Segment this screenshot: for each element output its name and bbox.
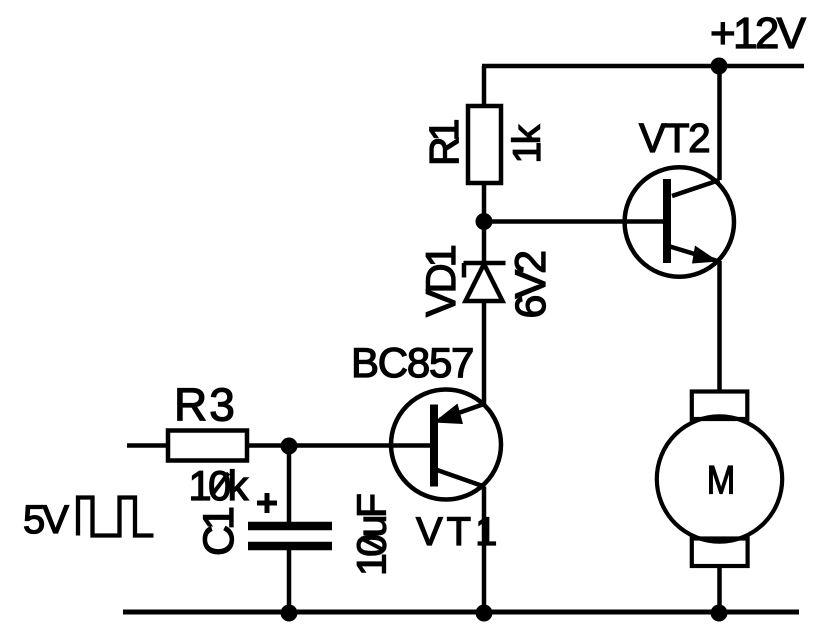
wire R3 to VT1 base (247, 443, 430, 448)
svg-text:R1: R1 (421, 120, 467, 166)
svg-text:+12V: +12V (710, 9, 807, 58)
wire VT2 emitter to motor (717, 261, 722, 392)
wire R1 top (482, 66, 487, 106)
emitter arrow VT1 (434, 404, 464, 425)
svg-text:6V2: 6V2 (507, 252, 555, 319)
emitter arrow VT2 (692, 246, 719, 264)
wire C1 top (287, 446, 292, 527)
node +12V junction dot (711, 58, 728, 75)
svg-text:M: M (707, 459, 736, 503)
wire ground rail (123, 610, 799, 615)
wire input stub (127, 443, 168, 448)
motor M brushes (692, 392, 748, 420)
svg-text:5V: 5V (23, 498, 69, 542)
wire VT1 emitter to ground (482, 487, 487, 613)
capacitor C1 (248, 493, 332, 546)
node B junction dot (476, 213, 493, 230)
resistor R3 (168, 431, 247, 461)
resistor R1 (468, 106, 501, 183)
svg-text:1k: 1k (506, 124, 549, 163)
motor M body (657, 416, 782, 541)
wire top +12V rail (482, 64, 804, 69)
wire +12V to VT2 collector (717, 66, 722, 180)
node A junction dot (281, 438, 298, 455)
wire C1 bottom (287, 546, 292, 612)
wire motor to ground (717, 566, 722, 612)
svg-text:BC857: BC857 (351, 339, 473, 386)
wire R1 bottom to diode (482, 183, 487, 263)
svg-text:VD1: VD1 (417, 245, 464, 317)
svg-text:VT1: VT1 (416, 510, 501, 554)
svg-text:10uF: 10uF (349, 494, 395, 576)
svg-text:C1: C1 (195, 508, 243, 556)
node ground junction dots (281, 605, 298, 622)
transistor VT1 (BC857, PNP) (391, 390, 501, 500)
svg-text:R3: R3 (174, 379, 237, 431)
source 5V pulse waveform (78, 498, 154, 536)
wire VT2 base (484, 219, 663, 224)
svg-text:VT2: VT2 (639, 115, 709, 161)
transistor VT2 (NPN) (625, 167, 734, 276)
zener diode VD1 (464, 263, 506, 301)
wire VD1 to VT1 collector (482, 301, 487, 404)
